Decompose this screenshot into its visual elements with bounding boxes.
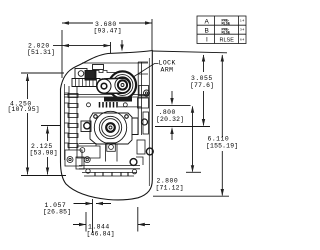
svg-text:LOCK: LOCK xyxy=(159,60,176,67)
right channel components xyxy=(118,62,153,165)
leader LOCK ARM xyxy=(134,64,159,77)
dim 4.250 vline xyxy=(27,74,29,175)
revision table xyxy=(197,16,246,44)
dim .800 outside arrows xyxy=(171,91,173,140)
svg-text:1.844: 1.844 xyxy=(88,224,110,231)
plate screws xyxy=(87,103,91,107)
svg-text:RLSE: RLSE xyxy=(220,38,235,44)
svg-text:[20.32]: [20.32] xyxy=(156,116,184,123)
left terminal ladder xyxy=(65,86,79,150)
svg-text:[53.98]: [53.98] xyxy=(30,150,58,157)
chassis plate line xyxy=(64,95,149,98)
left foot bracket xyxy=(65,150,82,166)
body inner wall right xyxy=(148,58,150,186)
dim 1.844 xyxy=(86,207,138,232)
bracket plate xyxy=(95,71,129,80)
top-left pivot block xyxy=(75,65,104,81)
bottom right extension line xyxy=(153,195,229,197)
lower cam xyxy=(94,111,126,143)
bottom rivet right xyxy=(130,159,137,166)
body inner wall left xyxy=(64,84,66,160)
dim 2.020 line xyxy=(53,42,111,53)
lower cam flange xyxy=(90,113,132,144)
svg-text:[77.6]: [77.6] xyxy=(190,82,214,89)
svg-text:RLSE: RLSE xyxy=(222,31,231,35)
dim 4.250 extension lines xyxy=(21,73,66,176)
svg-text:[107.95]: [107.95] xyxy=(8,106,40,113)
svg-text:RLSE: RLSE xyxy=(222,22,231,26)
right bracket by cam xyxy=(132,118,139,135)
svg-text:[51.31]: [51.31] xyxy=(27,49,55,56)
svg-text:6.110: 6.110 xyxy=(208,136,230,143)
svg-text:ARM: ARM xyxy=(161,67,174,74)
dim 2.800 vline xyxy=(192,107,194,172)
svg-text:[71.12]: [71.12] xyxy=(156,185,184,192)
bottom left assembly xyxy=(77,144,100,163)
2.800 bottom ext xyxy=(186,171,201,173)
svg-text:3-4: 3-4 xyxy=(240,28,245,32)
lock arm capsule xyxy=(97,78,130,93)
stamp block (dark marks under plate) xyxy=(100,102,118,108)
svg-text:I: I xyxy=(206,37,208,44)
left screw by cam xyxy=(81,121,91,132)
svg-text:A: A xyxy=(205,19,210,26)
svg-text:.800: .800 xyxy=(159,109,176,116)
cam hub xyxy=(115,77,130,92)
right channel screw xyxy=(144,90,150,96)
dark band under cam xyxy=(104,97,132,102)
rack bar xyxy=(72,79,100,87)
dim .800 extension lines xyxy=(155,105,210,126)
dim 6.110 vline xyxy=(221,55,223,196)
dim 3.680 extension lines xyxy=(62,19,152,78)
dim 1.057 xyxy=(92,199,94,233)
svg-text:1-4: 1-4 xyxy=(240,19,245,23)
bottom center column xyxy=(106,143,118,162)
lock cam (big top circle) xyxy=(109,71,136,98)
svg-text:2.800: 2.800 xyxy=(157,178,179,185)
svg-text:B: B xyxy=(205,28,209,35)
center arrow at body top xyxy=(121,40,123,48)
svg-text:[26.85]: [26.85] xyxy=(43,208,71,215)
svg-text:[155.19]: [155.19] xyxy=(206,143,238,150)
dim 2.125 extension line xyxy=(41,125,60,127)
bottom plate xyxy=(76,157,140,176)
svg-text:6-4: 6-4 xyxy=(240,38,245,42)
body outline xyxy=(61,51,153,200)
svg-text:[93.47]: [93.47] xyxy=(94,28,122,35)
svg-text:3.055: 3.055 xyxy=(191,75,213,82)
mechanism top rail xyxy=(82,62,148,64)
svg-text:[46.84]: [46.84] xyxy=(87,231,115,238)
dim 2.125 vline xyxy=(47,127,49,175)
dim 3.680 line xyxy=(62,22,152,24)
right top extension line xyxy=(153,51,228,53)
dim 3.055 vline xyxy=(203,55,205,126)
